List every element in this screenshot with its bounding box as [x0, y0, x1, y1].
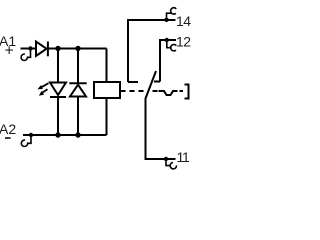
node dot top-right [75, 46, 80, 51]
wire corner down to coil [106, 49, 108, 83]
wire LED branch lower [57, 97, 59, 135]
node dot top-left [55, 46, 60, 51]
freewheel diode D2 [69, 83, 86, 96]
wire terminal 12 (NC) [160, 40, 176, 82]
contact blade [146, 71, 157, 99]
terminal clamp 12 [165, 38, 177, 51]
actuator dip symbol [159, 91, 178, 95]
NC contact seat [154, 81, 160, 83]
wire LED branch upper [57, 49, 59, 83]
mechanical link dashes (coil to blade) [121, 90, 145, 92]
svg-text:12: 12 [176, 33, 191, 49]
link dash before bracket [180, 90, 184, 92]
LED emission arrow 1 [38, 83, 49, 89]
NO contact seat [128, 81, 138, 83]
mechanical link dash right of blade [153, 90, 158, 92]
LED indicator [50, 83, 66, 98]
LED emission arrow 2 [39, 89, 48, 96]
terminal clamp 14 [164, 8, 176, 22]
terminal clamp A1 [21, 46, 37, 60]
node dot bottom-left [55, 132, 60, 137]
end bracket [185, 85, 189, 99]
terminal clamp A2 [21, 133, 33, 147]
wire bottom (A2 rail) [23, 134, 107, 136]
svg-text:+: + [5, 42, 14, 59]
wire D2 branch lower [77, 97, 79, 136]
wire D2 branch upper [77, 49, 79, 84]
wire terminal 11 (common) [146, 98, 176, 159]
wire top (D1 to corner) [48, 48, 107, 50]
svg-text:11: 11 [177, 149, 191, 165]
node dot bottom-right [75, 132, 80, 137]
diode D1 [36, 42, 48, 57]
polarity - [5, 137, 11, 139]
wire coil bottom [106, 98, 108, 135]
wire terminal 14 (NO) [128, 20, 176, 82]
svg-text:14: 14 [176, 13, 191, 29]
terminal clamp 11 [164, 157, 177, 169]
relay coil K1 [94, 82, 120, 98]
svg-text:A2: A2 [0, 121, 16, 137]
